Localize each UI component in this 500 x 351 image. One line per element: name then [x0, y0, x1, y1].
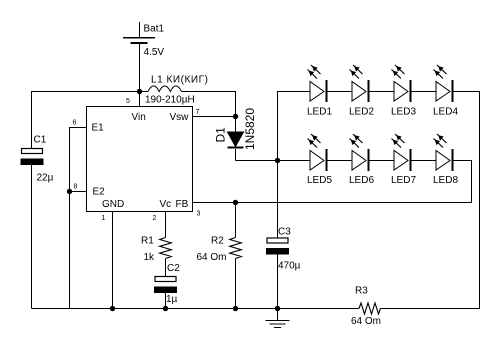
battery Bat1	[123, 24, 165, 59]
junction node Vsw/diode	[233, 114, 238, 119]
svg-text:190-210µH: 190-210µH	[145, 95, 195, 106]
LED LED5	[307, 134, 332, 186]
junction node bus/R2	[233, 306, 238, 311]
svg-text:LED6: LED6	[349, 175, 374, 186]
svg-text:R3: R3	[355, 286, 368, 297]
svg-text:C1: C1	[34, 135, 47, 146]
svg-text:LED5: LED5	[307, 175, 332, 186]
svg-text:R2: R2	[211, 236, 224, 247]
junction node bus/C3/ground	[275, 306, 280, 311]
wire diode cathode down	[235, 149, 237, 161]
wire battery to junction	[139, 44, 141, 92]
wire E2 pin 8	[70, 191, 87, 193]
wire E1 pin 6	[70, 128, 87, 309]
LED LED3	[391, 65, 416, 118]
inductor L1	[145, 75, 209, 106]
junction node bus/GND pin	[110, 306, 115, 311]
svg-text:GND: GND	[102, 199, 124, 210]
svg-text:1: 1	[102, 215, 106, 222]
svg-text:Bat1: Bat1	[144, 24, 165, 35]
svg-text:6: 6	[73, 120, 77, 127]
LED LED4	[433, 65, 458, 118]
wire C2 to bus	[165, 293, 167, 309]
svg-text:LED3: LED3	[391, 107, 416, 118]
svg-text:C2: C2	[167, 263, 180, 274]
wire row1 seg1	[328, 91, 353, 93]
diode D1 1N5820	[214, 108, 258, 150]
wire R2 bottom	[235, 259, 237, 309]
junction node E2 rail	[67, 189, 72, 194]
svg-text:R1: R1	[141, 236, 154, 247]
svg-text:8: 8	[74, 184, 78, 191]
op-amp/regulator IC U1 body	[87, 107, 193, 212]
wire row1 seg3	[412, 91, 437, 93]
wire row1 seg2	[370, 91, 395, 93]
svg-text:E2: E2	[93, 187, 106, 198]
wire row2 feed	[236, 160, 311, 162]
wire bottom bus left	[32, 308, 360, 310]
wire C1 bottom to bus	[31, 165, 33, 309]
svg-text:2: 2	[153, 215, 157, 222]
wire R2 top	[235, 203, 237, 238]
wire inductor lead left	[140, 91, 149, 93]
wire row2 seg1	[328, 160, 353, 162]
svg-text:LED4: LED4	[433, 107, 458, 118]
svg-text:FB: FB	[176, 199, 189, 210]
capacitor C3	[266, 227, 301, 272]
junction node FB/R2	[233, 200, 238, 205]
svg-text:1µ: 1µ	[166, 294, 178, 305]
wire inductor to corner	[182, 92, 236, 133]
svg-text:D1: D1	[214, 127, 228, 143]
LED LED8	[433, 134, 458, 186]
resistor R1	[141, 236, 171, 264]
LED LED1	[307, 65, 332, 118]
wire row2 seg3	[412, 160, 437, 162]
wire R1 to C2	[165, 259, 167, 277]
svg-text:LED2: LED2	[349, 107, 374, 118]
ground	[266, 309, 290, 328]
svg-text:22µ: 22µ	[37, 173, 54, 184]
wire row2 seg2	[370, 160, 395, 162]
svg-text:1N5820: 1N5820	[243, 108, 257, 150]
junction node battery/L1/Vin	[137, 89, 142, 94]
LED LED7	[391, 134, 416, 186]
junction node bus/C2	[163, 306, 168, 311]
wire pin 7 Vsw	[193, 116, 236, 118]
wire row1 to right rail	[454, 92, 480, 309]
svg-text:7: 7	[196, 109, 200, 116]
svg-text:4.5V: 4.5V	[144, 47, 165, 58]
svg-text:Vin: Vin	[132, 112, 146, 123]
wire rail up to row1	[278, 92, 311, 161]
svg-text:64 Om: 64 Om	[197, 252, 227, 263]
svg-text:LED7: LED7	[391, 175, 416, 186]
LED LED6	[349, 134, 374, 186]
LED LED2	[349, 65, 374, 118]
resistor R2	[197, 236, 242, 264]
capacitor C2	[154, 263, 180, 305]
wire bottom bus right	[381, 308, 480, 310]
svg-text:E1: E1	[92, 123, 105, 134]
wire C3 rail	[277, 161, 279, 239]
svg-text:64 Om: 64 Om	[351, 316, 381, 327]
wire battery top stub	[139, 22, 141, 37]
svg-text:Vsw: Vsw	[170, 112, 190, 123]
wire top rail to C1	[32, 92, 140, 149]
capacitor C1	[21, 135, 54, 184]
svg-text:C3: C3	[278, 227, 291, 238]
svg-text:1k: 1k	[144, 252, 156, 263]
wire junction to Vin pin 5	[139, 92, 141, 107]
wire FB line pin 3	[193, 202, 472, 204]
svg-text:L1 КИ(КИГ): L1 КИ(КИГ)	[151, 75, 209, 86]
wire GND pin 1	[112, 212, 114, 309]
wire row2 to FB drop	[454, 161, 472, 203]
svg-text:470µ: 470µ	[278, 261, 301, 272]
svg-text:3: 3	[197, 211, 201, 218]
wire Vc pin 2 to R1	[165, 212, 167, 238]
resistor R3	[351, 286, 381, 328]
svg-text:LED8: LED8	[433, 175, 458, 186]
wire C3 to bus	[277, 255, 279, 309]
junction node LED row2/C3 rail	[275, 158, 280, 163]
svg-text:5: 5	[126, 98, 130, 105]
svg-text:LED1: LED1	[307, 107, 332, 118]
svg-text:Vc: Vc	[160, 199, 172, 210]
